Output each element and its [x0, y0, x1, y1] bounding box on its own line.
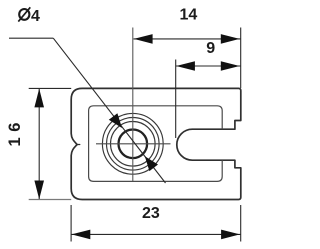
thread circle outer r30.4 — [102, 113, 163, 174]
dim 16: dimension line — [38, 89, 40, 199]
dim 23: left extension line — [70, 205, 72, 242]
hole circle bold r14.3 — [119, 130, 148, 159]
svg-text:14: 14 — [180, 7, 198, 24]
part outline: T-slot nut body with right-side slot and left notch — [71, 88, 241, 199]
svg-text:4: 4 — [31, 8, 40, 25]
dim 14: left arrow — [134, 34, 153, 44]
dim 16: top extension line — [29, 87, 71, 89]
dim 23: dimension line — [71, 233, 240, 235]
thread circle inner r22.3 — [111, 122, 156, 167]
leader Ø4: arrow at hole circle (up-left) — [145, 156, 158, 171]
dim 16: bottom extension line — [29, 199, 71, 201]
svg-text:23: 23 — [142, 205, 160, 222]
dim 16: bottom arrow — [34, 181, 44, 200]
dim 14: dimension line — [134, 38, 241, 40]
dim 9: right arrow — [221, 61, 240, 71]
leader Ø4: diagonal segment — [53, 38, 165, 183]
dim 9: extension line left — [175, 60, 177, 139]
dim 23: right arrow — [221, 230, 240, 240]
label Ø4: diameter symbol — [19, 9, 29, 20]
dim 16: top arrow — [34, 89, 44, 108]
leader Ø4: horizontal segment — [9, 37, 53, 39]
dim 23: right extension line — [240, 205, 242, 242]
shared right extension line (top) — [240, 28, 242, 89]
dim 9: left arrow — [176, 61, 195, 71]
vertical centerline of hole / extension line of dim 14 — [132, 28, 134, 182]
thread circle middle r26.3 — [107, 118, 160, 171]
notch tick on left edge — [77, 144, 80, 146]
inner rectangle (raised boss), right edge cut by slot — [89, 106, 223, 182]
dim 14: right arrow — [221, 34, 240, 44]
horizontal centerline of hole — [96, 143, 171, 145]
svg-text:9: 9 — [206, 40, 215, 57]
leader Ø4: arrow at thread circle (down-right) — [109, 113, 122, 128]
svg-text:16: 16 — [6, 117, 24, 146]
dim 23: left arrow — [72, 230, 91, 240]
dim 9: dimension line — [176, 65, 241, 67]
